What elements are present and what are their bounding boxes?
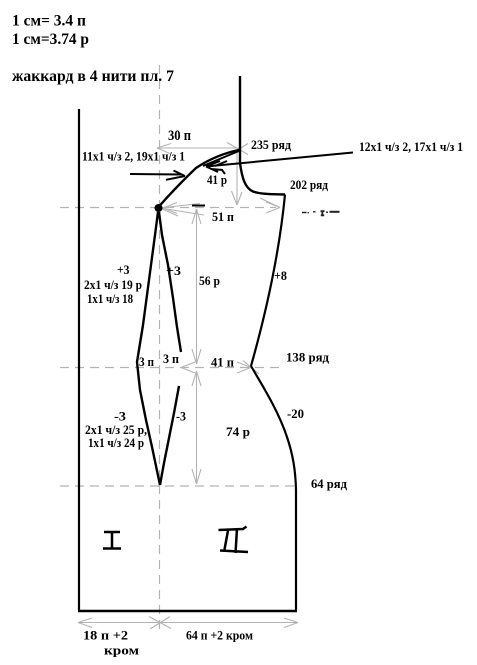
- dart left edge: [137, 212, 160, 485]
- svg-text:30 п: 30 п: [168, 128, 191, 144]
- dimension 41 п right arrowheads at waist: [237, 361, 259, 375]
- erased text fragments: [302, 211, 340, 215]
- left selvedge vertical line: [78, 109, 80, 611]
- dimension 74 p arrowheads: [192, 371, 201, 484]
- bottom hem line: [78, 610, 297, 612]
- svg-text:64 п +2 кром: 64 п +2 кром: [186, 629, 253, 643]
- dimension 56 p gray vertical line: [196, 209, 198, 364]
- guide dashed horizontal shoulder line y=208: [60, 207, 276, 209]
- black dash left of 51 п: [192, 205, 205, 207]
- guide dashed vertical center line: [159, 65, 161, 630]
- svg-text:2x1 ч/з 25 р,: 2x1 ч/з 25 р,: [85, 423, 147, 437]
- roman numeral I: [103, 532, 121, 549]
- dimension 41 п left arrowhead: [181, 362, 195, 373]
- shoulder curve: [158, 150, 241, 208]
- svg-text:+3: +3: [117, 262, 130, 277]
- svg-text:74 р: 74 р: [226, 424, 250, 439]
- dimension 41 p gray vertical line: [236, 151, 238, 205]
- svg-text:11x1 ч/з 2, 19x1 ч/з 1: 11x1 ч/з 2, 19x1 ч/з 1: [82, 150, 185, 164]
- svg-text:138 ряд: 138 ряд: [286, 351, 330, 365]
- svg-text:+3: +3: [166, 263, 182, 278]
- svg-text:51 п: 51 п: [212, 209, 234, 224]
- svg-text:202 ряд: 202 ряд: [290, 178, 329, 192]
- svg-text:-3: -3: [114, 409, 127, 424]
- dimension arrowhead at armhole y=208: [260, 198, 280, 213]
- dimension 30 п right cross arrowheads: [227, 143, 248, 156]
- dimension 30 п left arrowhead: [157, 144, 171, 154]
- svg-text:3 п: 3 п: [163, 352, 179, 366]
- svg-text:1 см=3.74 р: 1 см=3.74 р: [12, 31, 89, 48]
- svg-text:1 см= 3.4 п: 1 см= 3.4 п: [12, 13, 86, 30]
- svg-text:64 ряд: 64 ряд: [311, 477, 348, 491]
- svg-text:+8: +8: [274, 268, 287, 283]
- left arrow arrowhead: [166, 171, 185, 180]
- svg-text:56 р: 56 р: [199, 273, 220, 288]
- bottom dimension gray line y=622.5: [78, 622, 298, 624]
- svg-text:41 р: 41 р: [207, 172, 227, 187]
- roman numeral II: [219, 527, 249, 554]
- svg-text:12x1 ч/з 2, 17x1 ч/з 1: 12x1 ч/з 2, 17x1 ч/з 1: [359, 140, 463, 154]
- svg-text:-3: -3: [176, 409, 186, 424]
- converging line from shoulder point: [203, 151, 240, 167]
- left arrow line: [130, 173, 181, 176]
- svg-text:1x1 ч/з 18: 1x1 ч/з 18: [87, 292, 133, 306]
- long arrow double chevron: [206, 161, 227, 174]
- dart right edge lower: [160, 386, 179, 485]
- bottom dimension right arrowhead: [284, 618, 298, 628]
- bottom dimension left arrowhead: [78, 618, 92, 628]
- shoulder dot: [155, 204, 163, 212]
- hip curve -20: [251, 366, 296, 611]
- center back vertical line: [239, 76, 241, 163]
- dart right edge upper: [159, 212, 181, 352]
- bottom dimension middle cross arrowheads: [149, 617, 171, 630]
- dimension 74 p gray vertical line: [196, 371, 198, 484]
- guide dashed horizontal hip line y=486 (64 ряд): [60, 485, 294, 487]
- svg-text:2x1 ч/з 19 р: 2x1 ч/з 19 р: [84, 278, 142, 292]
- svg-text:-20: -20: [287, 406, 304, 421]
- dimension 56 p arrowheads: [192, 209, 201, 364]
- dimension 30 п gray line: [157, 147, 239, 149]
- svg-text:41 п: 41 п: [211, 355, 234, 370]
- armhole curve: [240, 163, 285, 195]
- long arrow line from right text: [206, 153, 353, 167]
- dimension 51 п arrowhead at dot: [160, 203, 204, 217]
- dimension 41 p bottom arrowhead: [232, 191, 243, 205]
- svg-text:кром: кром: [104, 644, 140, 658]
- svg-text:3 п: 3 п: [139, 355, 154, 369]
- svg-text:жаккард в 4 нити пл. 7: жаккард в 4 нити пл. 7: [12, 68, 174, 85]
- svg-text:235 ряд: 235 ряд: [251, 138, 292, 152]
- svg-text:1x1 ч/з 24 р: 1x1 ч/з 24 р: [88, 436, 144, 450]
- guide dashed horizontal waist line y=367.5 (138 ряд): [60, 367, 284, 369]
- svg-text:18 п +2: 18 п +2: [83, 629, 128, 643]
- side seam +8 line: [251, 195, 285, 367]
